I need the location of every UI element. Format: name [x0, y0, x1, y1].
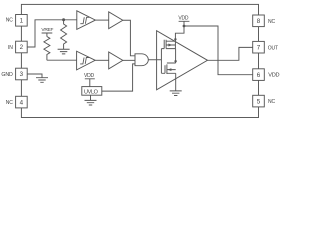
svg-text:3: 3 [20, 71, 24, 78]
wire GND pin3 to ground [27, 74, 42, 78]
driver triangle U5 [157, 31, 208, 90]
pin 4 [16, 96, 28, 108]
svg-text:NC: NC [268, 19, 276, 25]
svg-text:NC: NC [268, 99, 276, 105]
wire driver output [208, 47, 253, 60]
transistor Q2 NMOS [165, 63, 176, 74]
VDD terminal UVLO [85, 79, 95, 87]
pin 8 [253, 15, 265, 27]
svg-text:5: 5 [257, 98, 261, 105]
pin 2 [16, 41, 28, 53]
IC boundary box [21, 4, 258, 117]
svg-text:GND: GND [1, 72, 13, 78]
pin 3 [16, 68, 28, 80]
svg-text:OUT: OUT [268, 45, 278, 51]
svg-text:1: 1 [20, 18, 24, 25]
svg-text:2: 2 [20, 44, 24, 51]
node dot Q2 drain [174, 60, 176, 62]
svg-text:8: 8 [257, 18, 261, 25]
UVLO block [82, 87, 102, 96]
pin 6 [253, 69, 265, 81]
buffer U2 top [109, 12, 123, 29]
node dot VDD rail [183, 25, 186, 28]
svg-text:UVLO: UVLO [84, 89, 99, 95]
resistor R2 VREF [44, 37, 50, 61]
wire UVLO to AND gate bottom input [102, 64, 135, 91]
node dot Q1 source [174, 38, 176, 40]
VDD terminal driver [179, 21, 190, 26]
svg-text:4: 4 [20, 99, 24, 106]
wire Q1 drain to Q2 drain [175, 49, 177, 63]
buffer U4 bottom [109, 52, 123, 69]
wire Q2 source to ground [175, 73, 177, 91]
svg-text:VDD: VDD [268, 72, 279, 78]
ground for pin3 [36, 78, 48, 83]
wire VDD to Q1 source [175, 26, 184, 41]
ground for driver [170, 91, 182, 96]
wire U2 to AND gate top input [123, 20, 135, 56]
svg-text:VDD: VDD [178, 15, 189, 21]
wire IN pin2 to top net [27, 20, 77, 47]
schmitt buffer U3 bottom [77, 51, 96, 70]
ground for R1 [58, 49, 70, 54]
AND gate G1 [135, 54, 148, 66]
schmitt buffer U1 top [77, 11, 96, 30]
node A junction dot [62, 18, 65, 21]
pin 7 [253, 41, 265, 53]
wire U3 to U4 [95, 59, 109, 61]
VREF supply terminal [42, 33, 53, 37]
svg-text:NC: NC [6, 18, 14, 24]
wire VREF resistor to lower schmitt input [47, 59, 77, 61]
wire AND gate output to driver input bus [148, 59, 161, 61]
ground for UVLO [85, 95, 97, 105]
svg-text:NC: NC [6, 100, 14, 106]
resistor R1 pulldown [61, 20, 67, 50]
pin 1 [16, 15, 28, 27]
svg-text:VDD: VDD [84, 73, 95, 79]
svg-text:6: 6 [257, 72, 261, 79]
wire U1 to U2 [95, 19, 108, 21]
gate bus [161, 49, 165, 74]
svg-text:7: 7 [257, 44, 261, 51]
transistor Q1 PMOS [164, 40, 175, 49]
wire U4 to AND gate middle input [123, 59, 135, 61]
svg-text:VREF: VREF [41, 27, 53, 33]
wire VDD rail to pin 6 [184, 26, 253, 75]
pin 5 [253, 95, 265, 107]
svg-text:IN: IN [8, 45, 13, 51]
